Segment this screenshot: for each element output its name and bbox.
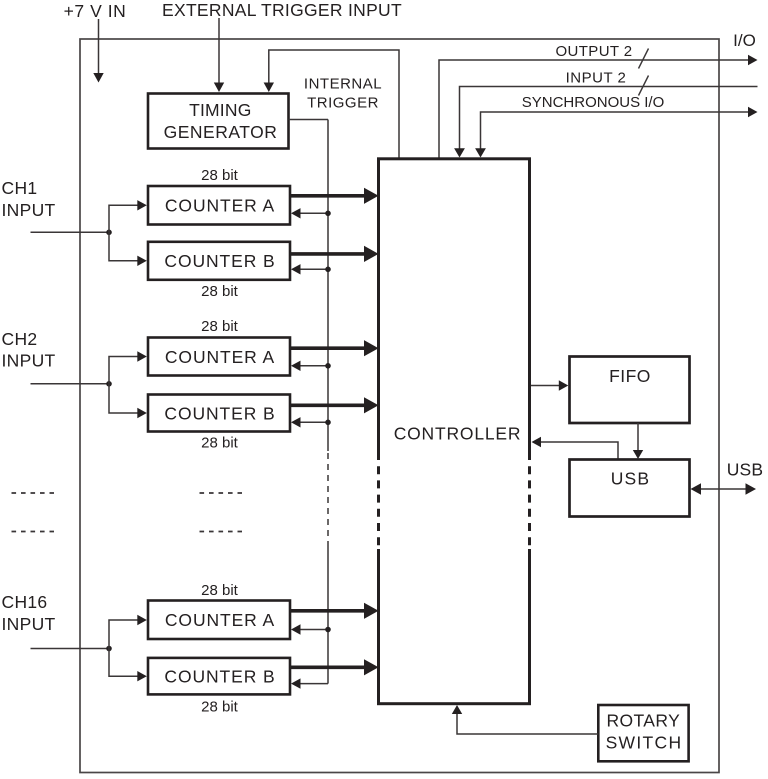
USB external right arrowhead <box>746 483 757 494</box>
CH16 counter B input arrowhead <box>137 671 147 681</box>
SYNCHRONOUS I/O arrowhead down <box>475 148 486 157</box>
timing generator block <box>148 94 289 149</box>
controller to FIFO wire <box>531 385 560 387</box>
svg-text:COUNTER A: COUNTER A <box>165 196 275 216</box>
svg-text:CH16: CH16 <box>2 592 48 612</box>
wire INPUT 2 <box>460 87 758 149</box>
svg-text:CH2: CH2 <box>2 329 38 349</box>
CH16 junction node <box>106 646 112 652</box>
CH16 counter A block <box>148 601 290 640</box>
svg-text:USB: USB <box>611 469 651 489</box>
CH16 counter A latch junction node <box>325 627 331 633</box>
INPUT 2 arrowhead <box>454 148 465 157</box>
external trigger arrowhead <box>214 83 224 93</box>
svg-text:GENERATOR: GENERATOR <box>164 122 278 142</box>
CH2 counter A input arrowhead <box>137 351 147 361</box>
CH1 counter B latch wire <box>300 268 328 270</box>
CH16 counter B latch wire (elbow from trigger line) <box>300 683 328 685</box>
external trigger wire <box>218 18 220 84</box>
CH1 counter B input arrowhead <box>137 256 147 266</box>
SYNCHRONOUS I/O arrowhead right <box>748 107 758 117</box>
OUTPUT 2 bus slash <box>639 49 649 69</box>
CH1 counter B data bus (thick arrow) <box>289 252 366 256</box>
CH2 counter A latch wire <box>300 365 328 367</box>
CH2 counter B latch wire <box>300 421 328 423</box>
controller to FIFO arrowhead <box>559 380 569 390</box>
INPUT 2 bus slash <box>639 76 649 96</box>
CH2 counter B input arrowhead <box>137 408 147 418</box>
rotary switch to controller wire <box>457 713 598 734</box>
svg-text:EXTERNAL TRIGGER INPUT: EXTERNAL TRIGGER INPUT <box>162 0 402 20</box>
CH1 counter A block <box>148 186 290 225</box>
svg-text:COUNTER A: COUNTER A <box>165 610 275 630</box>
FIFO to USB wire <box>637 423 639 451</box>
CH16 counter B block <box>148 658 290 695</box>
CH16 counter B data bus (thick arrow) <box>289 665 366 669</box>
svg-text:COUNTER B: COUNTER B <box>164 667 275 687</box>
CH1 counter A input arrowhead <box>137 200 147 210</box>
svg-text:28 bit: 28 bit <box>201 699 239 716</box>
svg-text:COUNTER B: COUNTER B <box>164 404 275 424</box>
CH2 counter B data bus (thick arrow) <box>289 403 366 407</box>
svg-text:SWITCH: SWITCH <box>606 733 683 753</box>
internal trigger feedback wire (controller to timing generator) <box>269 50 399 159</box>
svg-text:CH1: CH1 <box>2 178 38 198</box>
svg-text:COUNTER B: COUNTER B <box>164 251 275 271</box>
svg-text:INPUT: INPUT <box>2 614 56 634</box>
CH1 counter B latch arrowhead <box>291 264 301 274</box>
CH2 branch wire to counter A <box>109 357 138 384</box>
FIFO to USB arrowhead <box>633 450 643 459</box>
svg-text:OUTPUT 2: OUTPUT 2 <box>555 43 632 60</box>
wire OUTPUT 2 <box>439 60 749 159</box>
CH1 counter A latch junction node <box>325 211 331 217</box>
USB to controller arrowhead <box>532 437 542 447</box>
CH1 junction node <box>106 230 112 236</box>
internal trigger distribution wire horizontal <box>289 119 329 121</box>
CH1 branch wire to counter B <box>109 232 138 260</box>
svg-text:28 bit: 28 bit <box>201 318 239 335</box>
CH2 counter A latch arrowhead <box>291 361 301 371</box>
CH2 counter B latch arrowhead <box>291 417 301 427</box>
+7V arrowhead <box>93 73 103 83</box>
svg-text:SYNCHRONOUS I/O: SYNCHRONOUS I/O <box>522 94 665 111</box>
FIFO block <box>570 357 690 424</box>
CH2 branch wire to counter B <box>109 384 138 413</box>
+7V supply wire <box>98 19 100 74</box>
CH1 counter B block <box>148 242 290 280</box>
svg-text:TIMING: TIMING <box>189 100 251 120</box>
svg-text:ROTARY: ROTARY <box>606 711 680 731</box>
svg-text:INPUT: INPUT <box>2 200 56 220</box>
CH16 branch wire to counter A <box>109 620 138 649</box>
USB block <box>570 460 690 517</box>
CH16 input wire <box>31 648 110 650</box>
svg-text:FIFO: FIFO <box>609 366 651 386</box>
controller left edge break (dashed) <box>375 452 383 549</box>
USB external wire (bidirectional) <box>698 488 748 490</box>
svg-text:INPUT 2: INPUT 2 <box>566 70 627 87</box>
svg-text:28 bit: 28 bit <box>201 283 239 300</box>
internal trigger distribution wire vertical lower <box>327 547 329 684</box>
controller right edge break (dashed) <box>526 452 534 549</box>
CH1 branch wire to counter A <box>109 205 138 232</box>
svg-text:+7 V IN: +7 V IN <box>64 1 127 21</box>
USB to controller wire <box>540 442 618 460</box>
CH1 counter A latch arrowhead <box>291 208 301 218</box>
CH16 counter A input arrowhead <box>137 615 147 625</box>
CH1 counter B latch junction node <box>325 267 331 273</box>
OUTPUT 2 arrowhead <box>748 55 758 65</box>
internal trigger distribution wire vertical upper <box>327 120 329 452</box>
CH16 counter A data bus (thick arrow) <box>289 609 366 613</box>
CH2 junction node <box>106 381 112 387</box>
CH1 counter A latch wire <box>300 212 328 214</box>
internal trigger feedback arrowhead <box>264 83 274 93</box>
USB external left arrowhead <box>691 483 702 494</box>
svg-text:28 bit: 28 bit <box>201 435 239 452</box>
svg-text:28 bit: 28 bit <box>201 582 239 599</box>
controller block <box>379 159 530 704</box>
ellipsis dashes row 2 middle <box>200 531 243 533</box>
ellipsis dashes row 2 left <box>12 531 55 533</box>
enclosure outer box <box>80 39 719 773</box>
CH2 counter A latch junction node <box>325 363 331 369</box>
rotary switch block <box>598 705 688 761</box>
svg-text:USB: USB <box>727 460 764 480</box>
ellipsis dashes row 1 middle <box>200 492 243 494</box>
CH2 input wire <box>31 383 110 385</box>
CH1 input wire <box>31 231 110 233</box>
ellipsis dashes row 1 left <box>12 492 55 494</box>
rotary switch to controller arrowhead <box>452 705 462 714</box>
CH2 counter B block <box>148 395 290 432</box>
svg-text:INTERNAL: INTERNAL <box>304 76 382 93</box>
svg-text:COUNTER A: COUNTER A <box>165 347 275 367</box>
CH2 counter B latch junction node <box>325 420 331 426</box>
svg-text:TRIGGER: TRIGGER <box>307 95 379 112</box>
CH2 counter A data bus (thick arrow) <box>289 346 366 350</box>
CH1 counter A data bus (thick arrow) <box>289 194 366 198</box>
svg-text:I/O: I/O <box>733 31 756 50</box>
CH16 counter B latch arrowhead <box>291 678 301 688</box>
wire SYNCHRONOUS I/O <box>481 112 749 149</box>
CH16 counter A latch arrowhead <box>291 624 301 634</box>
svg-text:INPUT: INPUT <box>2 351 56 371</box>
CH16 counter A latch wire <box>300 629 328 631</box>
svg-text:28 bit: 28 bit <box>201 167 239 184</box>
CH2 counter A block <box>148 338 290 376</box>
svg-text:CONTROLLER: CONTROLLER <box>394 424 522 444</box>
CH16 branch wire to counter B <box>109 649 138 677</box>
internal trigger distribution wire dashed middle <box>327 453 329 547</box>
